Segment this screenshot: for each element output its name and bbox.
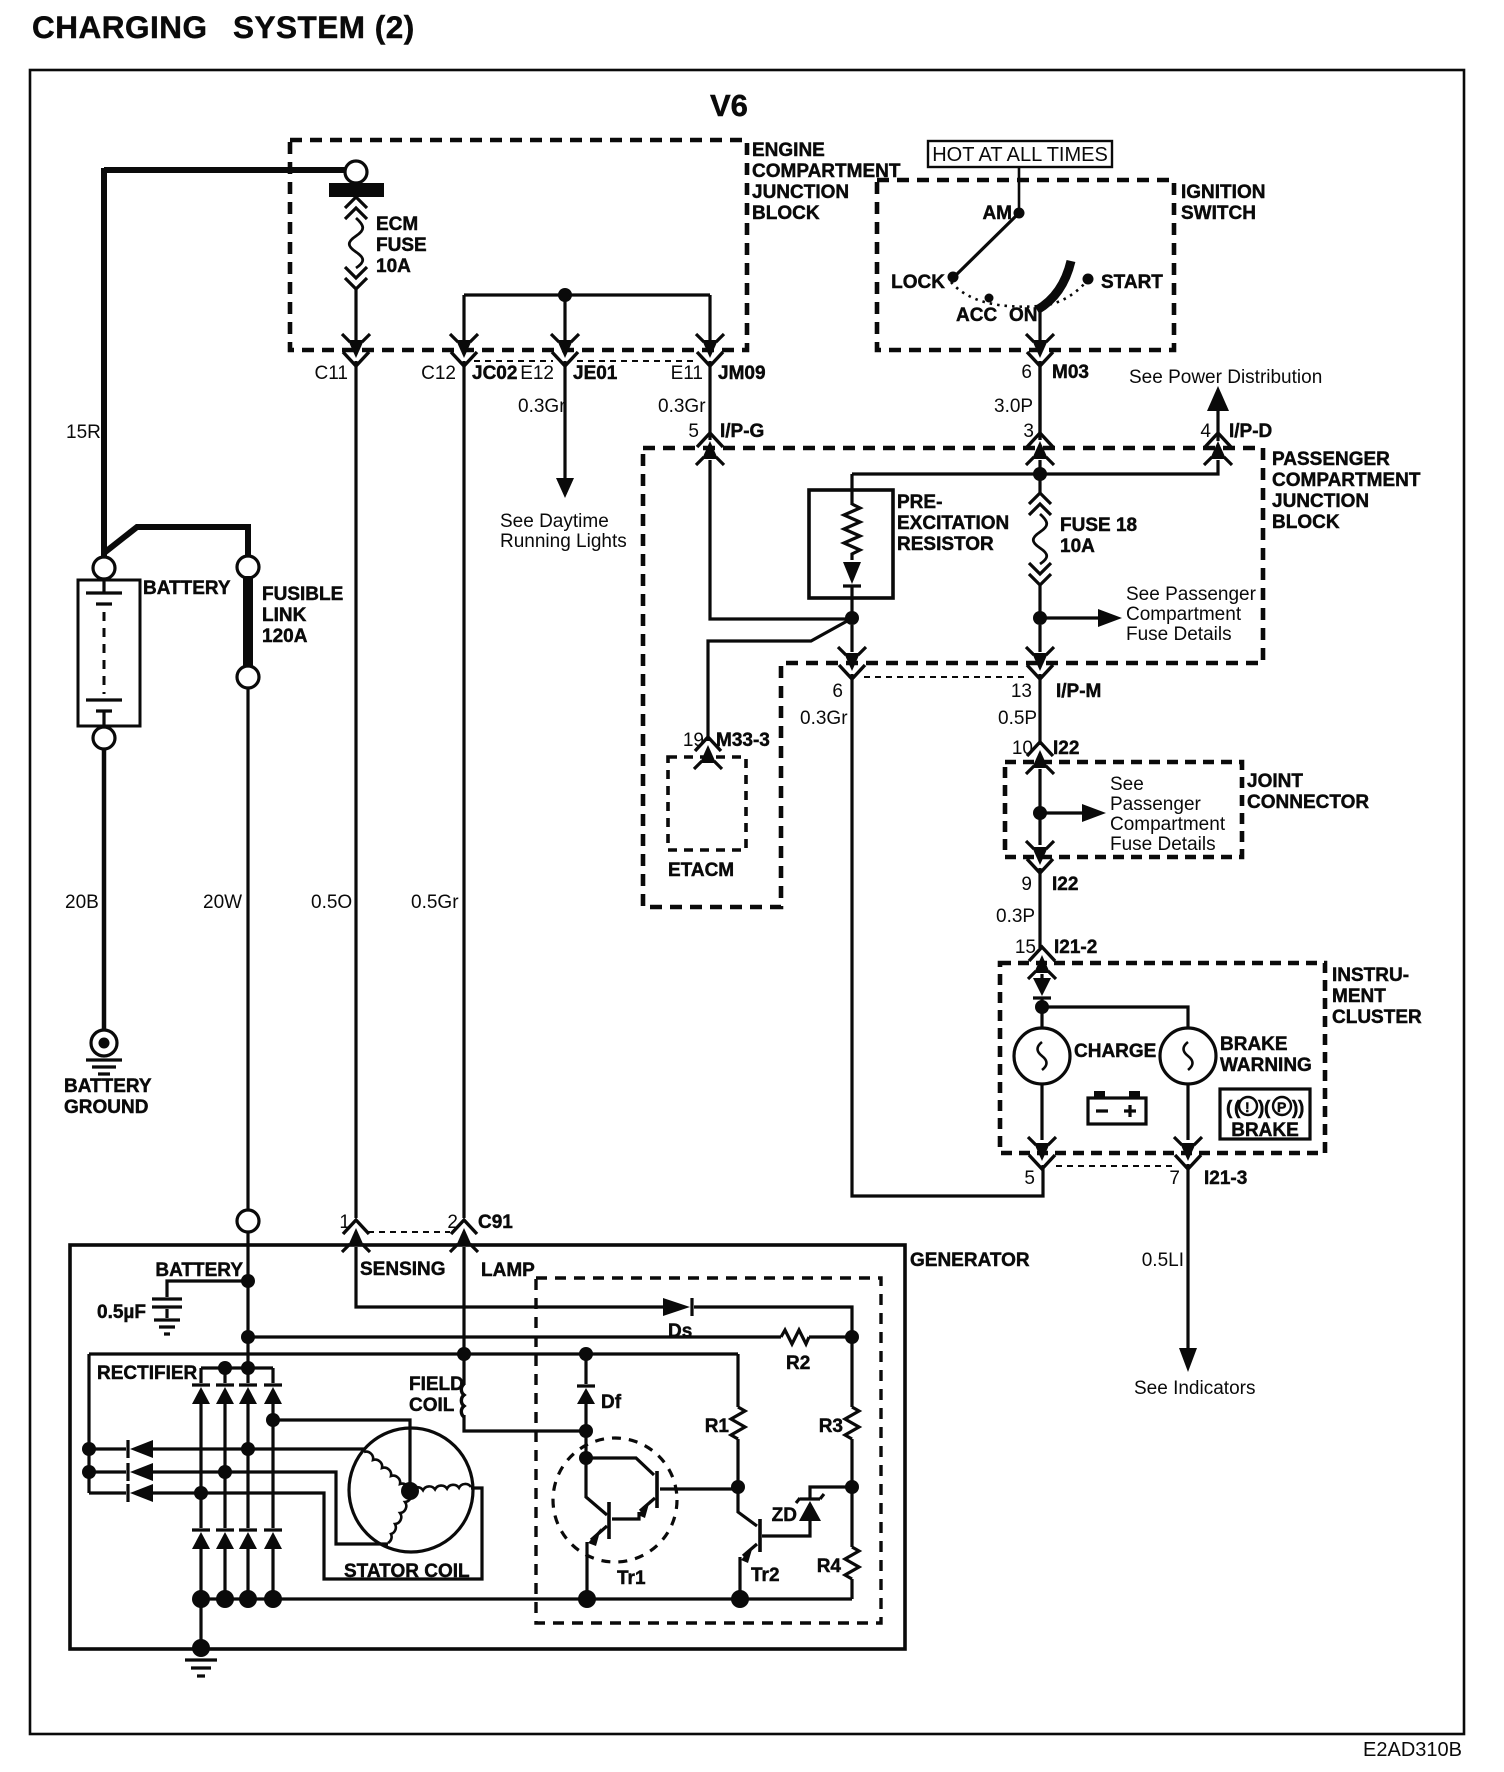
node trio row2 (82, 1465, 96, 1479)
svg-text:R2: R2 (786, 1353, 810, 1374)
HOT AT ALL TIMES box (928, 141, 1112, 167)
pre-excitation resistor box (809, 490, 893, 598)
svg-text:M03: M03 (1052, 362, 1089, 383)
joint connector label (1247, 771, 1369, 813)
resistor R2 (781, 1330, 810, 1374)
stator coil label (344, 1561, 470, 1582)
ECJB internal bus wire (464, 295, 710, 342)
zener diode ZD (772, 1487, 852, 1526)
terminal ACC (956, 294, 997, 327)
node phase W col1 (194, 1486, 208, 1500)
svg-text:5: 5 (1024, 1168, 1035, 1189)
connector C12 / JC02 (421, 334, 517, 384)
ECM fuse top terminal (345, 161, 367, 183)
connector 13 I/P-M (1011, 647, 1102, 702)
transistor Tr1 label (617, 1568, 646, 1589)
connector 7 I21-3 (1169, 1137, 1247, 1189)
svg-text:0.5µF: 0.5µF (97, 1302, 146, 1323)
node R1 Tr1 base junction (731, 1480, 745, 1494)
svg-text:C12: C12 (421, 363, 456, 384)
diode cluster entry (1033, 974, 1051, 1004)
wire 0.5LI to indicators (1134, 1164, 1255, 1399)
stator coil circle (349, 1428, 473, 1552)
label V6 (710, 88, 748, 123)
wire see power distribution (1129, 367, 1322, 441)
node stator neutral point (401, 1482, 419, 1500)
svg-text:See Power Distribution: See Power Distribution (1129, 367, 1322, 388)
wire joint connector internal (1038, 769, 1041, 845)
connector 19 M33-3 (683, 730, 770, 769)
svg-text:1: 1 (339, 1212, 350, 1233)
connector 15 entry chevron (1028, 947, 1056, 979)
svg-text:CHARGING SYSTEM (2): CHARGING SYSTEM (2) (32, 9, 415, 45)
node lamp bus Df (579, 1347, 593, 1361)
wire thick battery feed 15R (104, 168, 345, 557)
wire 0.5Gr JC02 to generator pin2 (462, 361, 465, 1218)
transistor Tr1 darlington (553, 1431, 738, 1599)
field coil (461, 1384, 586, 1431)
wire label 0.3Gr (JM09) (658, 396, 706, 417)
svg-text:FUSE 18: FUSE 18 (1060, 515, 1137, 536)
node rail col2 (216, 1590, 234, 1608)
svg-text:0.5P: 0.5P (998, 708, 1037, 729)
svg-text:0.5Gr: 0.5Gr (411, 892, 459, 913)
node battery R2 junction (241, 1330, 255, 1344)
switch lever AM-LOCK (954, 213, 1019, 277)
svg-text:5: 5 (688, 421, 699, 442)
svg-text:SENSING: SENSING (360, 1259, 446, 1280)
stator neutral wire (273, 1420, 410, 1488)
wire label 0.3Gr (pin6) (800, 708, 848, 729)
node rail Tr1 (578, 1590, 596, 1608)
battery B1 top terminal (93, 557, 115, 579)
stator winding U (364, 1452, 409, 1492)
wire label 0.5O (311, 892, 352, 913)
node cluster junction (1035, 1000, 1049, 1014)
svg-text:Passenger: Passenger (1110, 794, 1202, 815)
svg-text:FIELD: FIELD (409, 1374, 464, 1395)
lamp CHARGE label (1074, 1041, 1156, 1062)
svg-text:JUNCTION: JUNCTION (752, 182, 849, 203)
instrument cluster box (1000, 963, 1325, 1153)
generator label (910, 1250, 1030, 1271)
wire R3 column (850, 1337, 853, 1407)
connector 6 (PCJB out) (832, 647, 866, 702)
svg-text:Tr1: Tr1 (617, 1568, 646, 1589)
node phase V col2 (218, 1465, 232, 1479)
svg-text:PRE-: PRE- (897, 492, 942, 513)
svg-text:I/P-D: I/P-D (1229, 421, 1272, 442)
connector 2 C91 (LAMP) (447, 1212, 513, 1252)
fusible link 120A (243, 576, 253, 670)
svg-text:0.3Gr: 0.3Gr (518, 396, 566, 417)
terminal ON (1009, 305, 1038, 326)
svg-text:Fuse Details: Fuse Details (1110, 834, 1216, 855)
node joint connector junction (1033, 806, 1047, 820)
connector 5 (cluster out) (1024, 1137, 1056, 1189)
connector 10 I22 (1012, 738, 1080, 774)
capacitor 0.5uF (152, 1281, 248, 1334)
connector 6 M03 (1021, 334, 1089, 383)
battery B1 bottom terminal (93, 727, 115, 749)
node Ds R2 junction (845, 1330, 859, 1344)
title CHARGING SYSTEM (2) (32, 9, 415, 45)
node neutral col4 (266, 1413, 280, 1427)
svg-text:GROUND: GROUND (64, 1097, 148, 1118)
node bus junction (1033, 467, 1047, 481)
svg-text:Ds: Ds (668, 1321, 692, 1342)
svg-text:6: 6 (832, 681, 843, 702)
transistor Tr2 label (751, 1565, 780, 1586)
wire R2 bus (248, 1335, 852, 1338)
svg-text:7: 7 (1169, 1168, 1180, 1189)
diode trio D7 (89, 1440, 153, 1458)
svg-text:Running Lights: Running Lights (500, 531, 627, 552)
node battery capacitor junction (241, 1274, 255, 1288)
generator ground drop (185, 1599, 217, 1676)
connector 5 I/P-G (688, 421, 764, 465)
svg-text:20W: 20W (203, 892, 242, 913)
rectifier diode D5 (col4 neutral) (264, 1368, 282, 1599)
transistor Tr2 (738, 1487, 810, 1599)
switch travel dotted arc (951, 281, 1087, 307)
fuse 18 label (1060, 515, 1137, 557)
generator battery terminal (237, 1210, 259, 1232)
node Df field coil junction (579, 1424, 593, 1438)
node rail col3 (239, 1590, 257, 1608)
terminal LOCK (891, 272, 958, 294)
svg-text:): ) (1298, 1098, 1304, 1119)
svg-text:COMPARTMENT: COMPARTMENT (1272, 470, 1421, 491)
svg-text:19: 19 (683, 730, 704, 751)
svg-text:INSTRU-: INSTRU- (1332, 965, 1409, 986)
wire resistor node to ETACM (708, 620, 849, 741)
joint connector box (1005, 762, 1242, 857)
wire label 0.3Gr (JE01) (518, 396, 566, 417)
svg-text:10A: 10A (1060, 536, 1095, 557)
svg-text:See Passenger: See Passenger (1126, 584, 1257, 605)
svg-text:BRAKE: BRAKE (1220, 1034, 1288, 1055)
arrow see passenger compartment fuse details (joint) (1046, 774, 1226, 855)
svg-text:CLUSTER: CLUSTER (1332, 1007, 1422, 1028)
svg-text:!: ! (1245, 1099, 1250, 1115)
svg-text:Df: Df (601, 1392, 622, 1413)
svg-text:BATTERY: BATTERY (155, 1260, 243, 1281)
svg-text:R3: R3 (819, 1416, 843, 1437)
svg-text:BLOCK: BLOCK (1272, 512, 1340, 533)
instrument cluster label (1332, 965, 1422, 1028)
connector bracket dashes 6-13 (864, 676, 1026, 678)
battery ground label (64, 1076, 152, 1118)
field coil label (409, 1374, 464, 1416)
svg-text:9: 9 (1021, 874, 1032, 895)
rectifier diode D3 (col3) (239, 1368, 257, 1599)
stator winding W (411, 1484, 471, 1491)
svg-text:3.0P: 3.0P (994, 396, 1033, 417)
stator winding V (388, 1491, 411, 1543)
node resistor output junction (845, 611, 859, 625)
node B+ bus col2 (218, 1361, 232, 1375)
svg-text:EXCITATION: EXCITATION (897, 513, 1009, 534)
wire 9 to 15 (1038, 868, 1041, 948)
svg-text:R4: R4 (817, 1556, 842, 1577)
fusible link label (262, 584, 343, 647)
ETACM label (668, 860, 734, 881)
svg-text:MENT: MENT (1332, 986, 1386, 1007)
wire SENSING into generator (356, 1247, 852, 1337)
svg-text:STATOR COIL: STATOR COIL (344, 1561, 470, 1582)
lamp BRAKE WARNING (1160, 1028, 1216, 1084)
terminal AM (982, 203, 1024, 224)
svg-text:AM: AM (982, 203, 1012, 224)
svg-text:LOCK: LOCK (891, 272, 945, 293)
wire 3.0P (994, 361, 1040, 440)
resistor R3 (819, 1407, 859, 1487)
battery B1 label (143, 578, 231, 599)
arrow see passenger compartment fuse details (PCJB) (1046, 584, 1257, 645)
wire internal bus to IP-D (852, 460, 1218, 474)
svg-text:E12: E12 (520, 363, 554, 384)
connector 15 I21-2 (1015, 937, 1097, 958)
wire label 20B (65, 892, 99, 913)
wire LAMP into generator (462, 1247, 465, 1385)
connector bracket dashes ECJB (474, 360, 698, 362)
wire 0.5O C11 to generator pin1 (354, 361, 357, 1218)
connector 1 (SENSING) (339, 1212, 370, 1252)
svg-text:I21-2: I21-2 (1054, 937, 1097, 958)
fusible link bottom terminal (237, 666, 259, 688)
stator phase wire W (153, 1488, 482, 1579)
ECM fuse 10A (345, 197, 367, 342)
wire label 0.5Gr (411, 892, 459, 913)
svg-text:ENGINE: ENGINE (752, 140, 825, 161)
svg-text:See Daytime: See Daytime (500, 511, 609, 532)
connector 4 I/P-D (1200, 421, 1272, 465)
node rail col4 (264, 1590, 282, 1608)
svg-text:See: See (1110, 774, 1144, 795)
svg-text:FUSIBLE: FUSIBLE (262, 584, 343, 605)
pre-excitation resistor (843, 474, 861, 612)
svg-text:ON: ON (1009, 305, 1038, 326)
passenger compartment junction block label (1272, 449, 1421, 533)
wire 3 to bus (1038, 460, 1041, 474)
generator terminal labels (155, 1259, 535, 1281)
ignition switch box (877, 180, 1174, 350)
connector E12 / JE01 (520, 334, 618, 384)
node bus E12 junction (558, 288, 572, 302)
node phase U col3 (241, 1442, 255, 1456)
wire label 0.3P (996, 906, 1035, 927)
node rail Tr2 (731, 1590, 749, 1608)
brake telltale icon (1220, 1089, 1310, 1141)
note see daytime running lights (500, 511, 627, 552)
node fuse 18 output junction (1033, 611, 1047, 625)
svg-text:Tr2: Tr2 (751, 1565, 780, 1586)
wire charge lamp out (1040, 1084, 1043, 1140)
svg-text:C91: C91 (478, 1212, 513, 1233)
stator phase wire U (153, 1447, 364, 1450)
svg-text:Compartment: Compartment (1110, 814, 1226, 835)
svg-text:13: 13 (1011, 681, 1032, 702)
svg-text:ECM: ECM (376, 214, 418, 235)
wire IP-G internal (710, 460, 852, 619)
svg-text:I22: I22 (1052, 874, 1078, 895)
svg-text:See Indicators: See Indicators (1134, 1378, 1255, 1399)
svg-text:4: 4 (1200, 421, 1211, 442)
svg-text:ACC: ACC (956, 305, 997, 326)
generator box (70, 1245, 905, 1649)
svg-text:START: START (1101, 272, 1163, 293)
svg-text:(: ( (1264, 1098, 1271, 1119)
svg-text:V6: V6 (710, 88, 748, 123)
ignition key actuator arc (1037, 261, 1071, 310)
svg-text:GENERATOR: GENERATOR (910, 1250, 1030, 1271)
ignition switch label (1181, 182, 1265, 224)
svg-text:0.3Gr: 0.3Gr (658, 396, 706, 417)
rectifier trio output wire (87, 1354, 90, 1493)
svg-text:LAMP: LAMP (481, 1260, 535, 1281)
svg-text:10: 10 (1012, 738, 1033, 759)
wire ON output (1038, 306, 1041, 342)
rectifier diode D4 (col1 bottom) (192, 1532, 210, 1599)
wire to charge lamp (1040, 1007, 1043, 1028)
rectifier diode D1 (col1 top) (192, 1368, 210, 1530)
engine compartment junction block label (752, 140, 901, 224)
battery telltale icon (1088, 1091, 1146, 1124)
ECM fuse holder bar (329, 183, 384, 197)
wire fuse18 to pin13 (1038, 625, 1041, 652)
svg-text:RECTIFIER: RECTIFIER (97, 1363, 198, 1384)
svg-text:Compartment: Compartment (1126, 604, 1242, 625)
svg-text:0.5O: 0.5O (311, 892, 352, 913)
svg-text:JE01: JE01 (573, 363, 618, 384)
wire hot feed to AM (1018, 167, 1021, 209)
diode trio D8 (89, 1463, 153, 1481)
svg-text:6: 6 (1021, 362, 1032, 383)
node B+ bus col3 (241, 1361, 255, 1375)
diode Ds (663, 1298, 692, 1342)
resistor R1 (705, 1354, 745, 1487)
node rail col1 (192, 1590, 210, 1608)
svg-text:LINK: LINK (262, 605, 307, 626)
connector E11 / JM09 (671, 334, 766, 384)
pre-excitation resistor label (897, 492, 1009, 555)
battery ground symbol (86, 1030, 122, 1074)
wire label 20W (203, 892, 242, 913)
svg-text:E11: E11 (671, 363, 703, 384)
diode Df (577, 1354, 622, 1428)
ECM fuse label (376, 214, 427, 277)
svg-text:ETACM: ETACM (668, 860, 734, 881)
svg-text:R1: R1 (705, 1416, 730, 1437)
connector bracket dashes 5-7 (1056, 1165, 1176, 1167)
lamp CHARGE (1014, 1028, 1070, 1084)
node R3 R4 ZD junction (845, 1480, 859, 1494)
svg-text:I22: I22 (1053, 738, 1079, 759)
rectifier label (97, 1363, 198, 1384)
svg-text:P: P (1277, 1099, 1286, 1115)
wire JE01 to daytime running lights (556, 361, 574, 498)
wire 20W fusible link to generator (246, 688, 249, 1210)
passenger compartment junction block box (643, 448, 1263, 907)
wire 0.3Gr pin6 to charge lamp (852, 674, 1043, 1196)
svg-text:0.5LI: 0.5LI (1142, 1250, 1184, 1271)
lamp BRAKE WARNING label (1220, 1034, 1312, 1076)
svg-text:2: 2 (447, 1212, 458, 1233)
ground rail wire (201, 1597, 852, 1600)
svg-text:COIL: COIL (409, 1395, 455, 1416)
wire pin13 to joint connector (1038, 674, 1041, 745)
wire label 15R (66, 422, 101, 443)
svg-text:JM09: JM09 (718, 363, 766, 384)
svg-text:JOINT: JOINT (1247, 771, 1303, 792)
svg-text:I/P-G: I/P-G (720, 421, 764, 442)
rectifier diode D2 (col2) (216, 1368, 234, 1599)
svg-text:SWITCH: SWITCH (1181, 203, 1256, 224)
svg-text:ZD: ZD (772, 1505, 797, 1526)
svg-text:HOT AT ALL TIMES: HOT AT ALL TIMES (932, 144, 1108, 166)
connector C11 (315, 334, 370, 384)
svg-text:I21-3: I21-3 (1204, 1168, 1247, 1189)
svg-text:JUNCTION: JUNCTION (1272, 491, 1369, 512)
diode trio D9 (89, 1484, 153, 1502)
svg-text:IGNITION: IGNITION (1181, 182, 1265, 203)
fuse 18 10A (1029, 474, 1051, 612)
stator phase wire V (153, 1472, 388, 1544)
svg-text:3: 3 (1023, 421, 1034, 442)
svg-text:JC02: JC02 (472, 363, 517, 384)
svg-text:RESISTOR: RESISTOR (897, 534, 994, 555)
ETACM box (668, 757, 746, 850)
terminal START (1083, 272, 1164, 293)
wire label 0.5P (998, 708, 1037, 729)
footer code E2AD310B (1363, 1739, 1462, 1761)
node lamp bus field coil (457, 1347, 471, 1361)
svg-text:PASSENGER: PASSENGER (1272, 449, 1390, 470)
wire brake warning lamp out (1186, 1084, 1189, 1140)
svg-text:I/P-M: I/P-M (1056, 681, 1101, 702)
regulator box (536, 1278, 881, 1623)
lamp bus wire (89, 1352, 738, 1355)
rectifier B+ bus (201, 1366, 273, 1369)
svg-text:10A: 10A (376, 256, 411, 277)
svg-text:CONNECTOR: CONNECTOR (1247, 792, 1369, 813)
resistor R4 (817, 1487, 859, 1599)
svg-text:15R: 15R (66, 422, 101, 443)
svg-text:E2AD310B: E2AD310B (1363, 1739, 1462, 1761)
svg-text:0.3Gr: 0.3Gr (800, 708, 848, 729)
svg-text:BATTERY: BATTERY (143, 578, 231, 599)
wire 20B battery to ground (102, 749, 107, 1029)
connector bracket dashes C91 (368, 1231, 450, 1233)
svg-text:Fuse Details: Fuse Details (1126, 624, 1232, 645)
node trio row1 (82, 1442, 96, 1456)
svg-text:BATTERY: BATTERY (64, 1076, 152, 1097)
svg-text:FUSE: FUSE (376, 235, 427, 256)
battery B1 (78, 579, 140, 727)
engine compartment junction block box (290, 140, 747, 350)
wire resistor to pin6 (850, 625, 853, 652)
svg-text:20B: 20B (65, 892, 99, 913)
wire to brake warning lamp (1042, 1007, 1188, 1028)
svg-text:BLOCK: BLOCK (752, 203, 820, 224)
svg-text:0.3P: 0.3P (996, 906, 1035, 927)
capacitor label (97, 1302, 146, 1323)
svg-text:(: ( (1226, 1098, 1233, 1119)
connector 3 (1023, 421, 1054, 465)
connector 9 I22 (1021, 841, 1078, 895)
svg-text:WARNING: WARNING (1220, 1055, 1312, 1076)
